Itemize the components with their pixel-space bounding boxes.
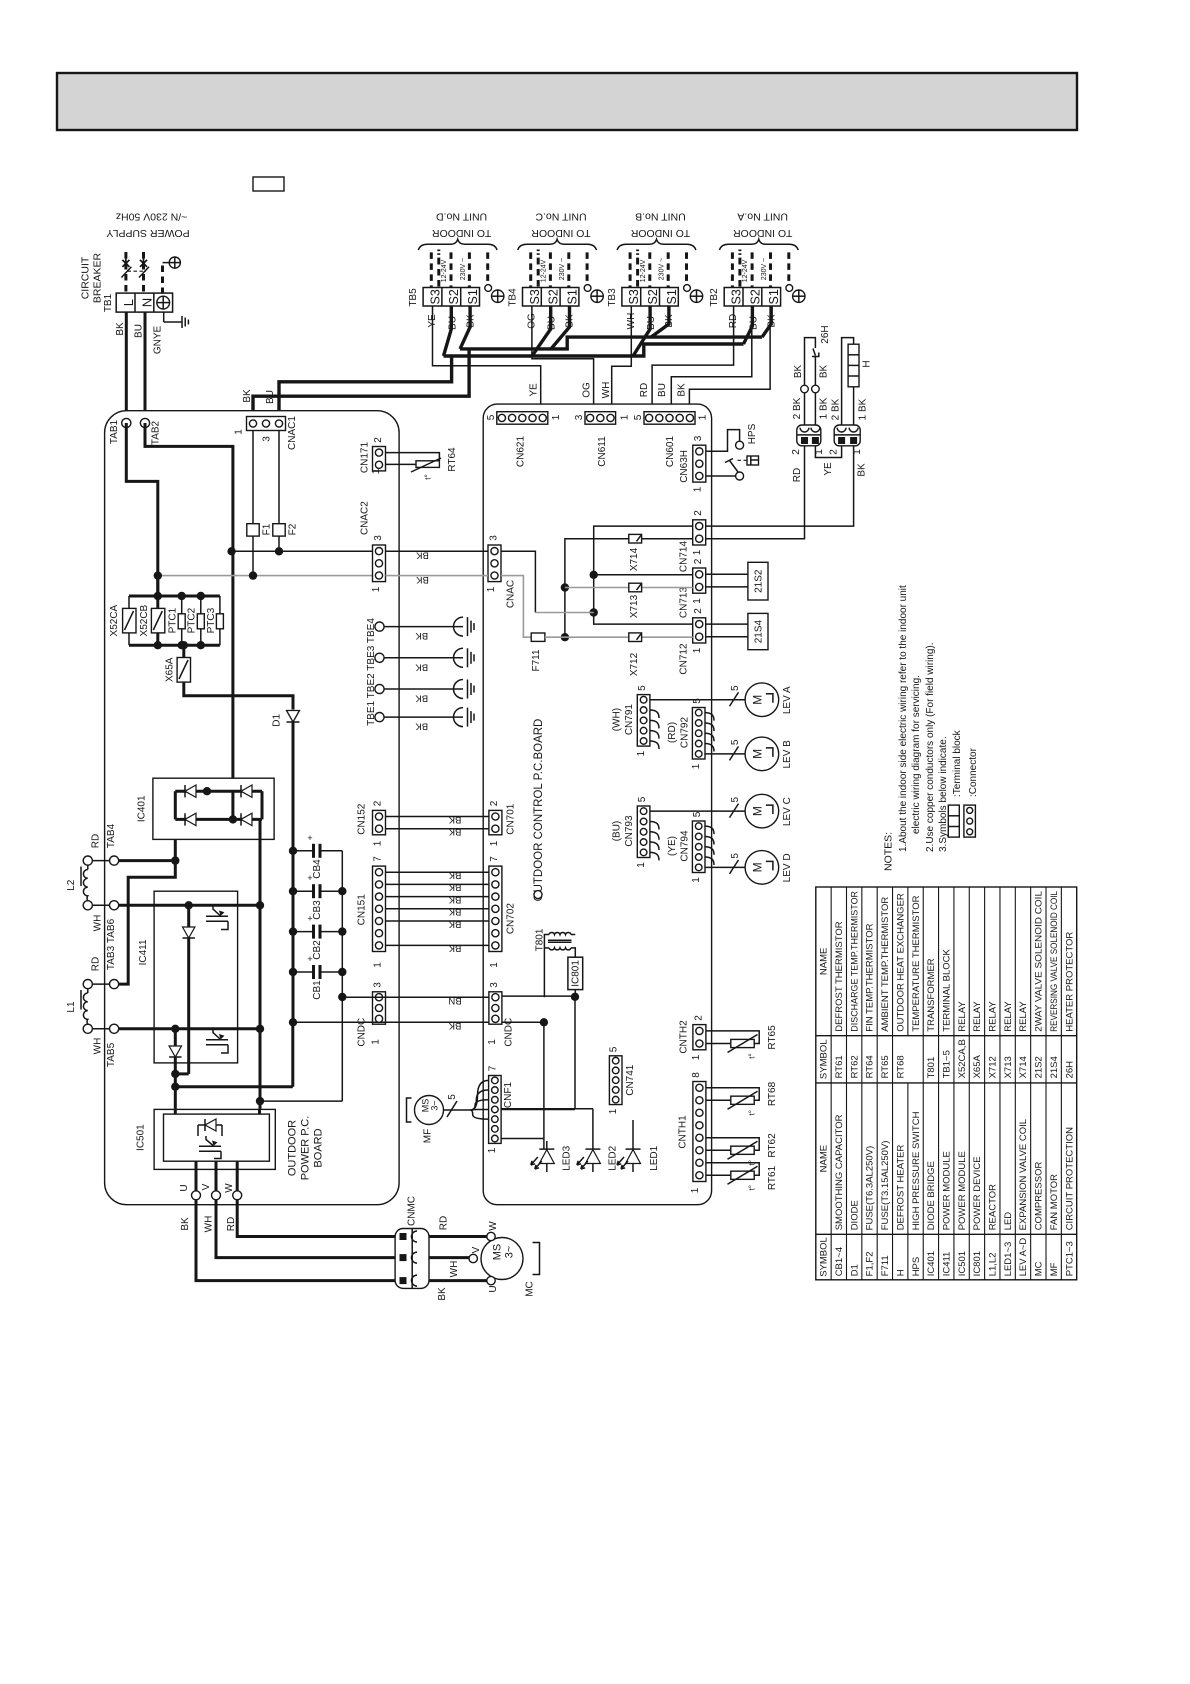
svg-text:RELAY: RELAY [957,1001,968,1032]
HPS switch blade [730,461,739,473]
svg-text:CB3: CB3 [312,900,323,920]
svg-text:X52CA: X52CA [109,604,120,636]
svg-text:RT65: RT65 [767,1025,778,1050]
svg-text:BK: BK [857,463,868,477]
svg-text:BK: BK [416,574,429,585]
svg-text:1: 1 [487,1039,498,1045]
IC401 diode 4 [241,813,252,825]
svg-text:REVERSING VALVE SOLENOID COIL: REVERSING VALVE SOLENOID COIL [1049,891,1060,1032]
svg-text:230V ~: 230V ~ [460,258,467,280]
svg-text:2 BK: 2 BK [830,398,841,420]
svg-text:1: 1 [691,877,702,883]
svg-text:DIODE BRIDGE: DIODE BRIDGE [926,1161,937,1230]
svg-text:TEMPERATURE THERMISTOR: TEMPERATURE THERMISTOR [911,895,922,1031]
svg-text:BREAKER: BREAKER [92,252,104,303]
svg-text:NAME: NAME [819,1145,830,1172]
RT61 loop [706,1163,759,1176]
wires CNMC to MC motor [429,1235,487,1238]
svg-text:RT61: RT61 [834,1055,845,1078]
chassis earth symbol [454,680,464,699]
svg-text:BK: BK [448,882,461,893]
svg-text:WH: WH [92,915,103,932]
svg-text:(WH): (WH) [612,708,623,731]
svg-text:HEATER PROTECTOR: HEATER PROTECTOR [1064,932,1075,1032]
svg-text:1: 1 [371,586,382,592]
svg-text:DISCHARGE TEMP.THERMISTOR: DISCHARGE TEMP.THERMISTOR [849,891,860,1032]
svg-text:RELAY: RELAY [1003,1001,1014,1032]
svg-text:CN611: CN611 [597,436,608,467]
svg-text:POWER MODULE: POWER MODULE [957,1151,968,1230]
svg-text:MS: MS [492,1244,504,1261]
svg-text:RD: RD [639,383,650,397]
svg-text:3: 3 [488,535,499,541]
wire MF to CNF1 with 5-slash [444,1109,472,1111]
field earth terminal TB5 [485,285,492,292]
svg-text:LED2: LED2 [607,1145,618,1170]
svg-text:TO INDOOR: TO INDOOR [432,227,492,239]
svg-text:2: 2 [791,449,802,455]
svg-text:CN63H: CN63H [679,450,690,483]
svg-text:TAB3: TAB3 [106,945,117,970]
YE jumper wire [815,446,841,458]
title bar [57,73,1077,130]
svg-text:GNYE: GNYE [153,326,164,355]
svg-text:CIRCUIT: CIRCUIT [80,256,92,299]
svg-text:2: 2 [693,510,704,516]
svg-text:CN741: CN741 [625,1064,636,1096]
field connector for H [834,425,860,446]
svg-text:FIN TEMP.THERMISTOR: FIN TEMP.THERMISTOR [865,923,876,1031]
svg-text:BU: BU [657,383,668,397]
svg-text:W: W [488,1221,499,1231]
wire CNF1 pin1 to LED3 node [501,1138,544,1140]
svg-text:TAB4: TAB4 [106,823,117,848]
breaker contact N [140,258,147,268]
svg-text:TB2: TB2 [709,288,720,307]
svg-text:(RD): (RD) [667,722,678,743]
svg-text:WH: WH [92,1038,103,1055]
svg-text:CNTH2: CNTH2 [679,1020,690,1054]
svg-text:OG: OG [581,382,592,398]
svg-text:MF: MF [422,1129,433,1143]
svg-text:electric wiring diagram for se: electric wiring diagram for servicing. [911,675,922,834]
svg-text:2: 2 [373,437,384,443]
svg-text:UNIT No.A: UNIT No.A [737,210,788,222]
relay X714 [629,534,642,543]
wire X65A to D1 [184,682,293,709]
slash 5 on LEV D wire [730,860,739,874]
svg-text:3: 3 [261,436,272,442]
solenoid coil 21S4 [748,613,768,649]
breaker contact L [122,258,129,268]
capacitor rail left [292,851,295,1023]
svg-text:CN714: CN714 [679,541,690,573]
svg-text:S3: S3 [528,289,542,304]
terminal TAB3 [110,980,119,989]
svg-text:COMPRESSOR: COMPRESSOR [1034,1162,1045,1231]
wire CN791 to LEV A [650,699,745,701]
svg-text:RT64: RT64 [447,447,458,472]
svg-text:2.Use copper conductors only (: 2.Use copper conductors only (For field … [925,642,936,852]
ground symbol [163,312,165,322]
capacitor CB4 [293,850,314,852]
svg-text:RELAY: RELAY [988,1001,999,1032]
svg-text:12-24V: 12-24V [441,259,448,282]
svg-text:CB2: CB2 [312,940,323,960]
wire to CNAC2 pin1 gray [158,575,373,577]
svg-text:5: 5 [692,811,703,817]
svg-text:CNMC: CNMC [406,1196,417,1226]
svg-text:5: 5 [608,1046,619,1052]
svg-text:5: 5 [486,414,497,420]
svg-text:BK: BK [448,870,461,881]
svg-text:RD: RD [91,957,102,971]
svg-text:(YE): (YE) [667,836,678,856]
chassis earth symbol [454,708,464,727]
wire CNAC pin3 branch [501,551,535,612]
svg-text:TAB1: TAB1 [109,419,120,444]
svg-text:21S4: 21S4 [1049,1056,1060,1078]
svg-text:1: 1 [692,549,703,555]
svg-text:CN151: CN151 [356,894,367,926]
svg-text:TAB5: TAB5 [106,1042,117,1067]
svg-text:TO INDOOR: TO INDOOR [531,227,591,239]
fuse F1 [252,431,254,524]
connector CNAC [488,545,501,582]
svg-text:CNTH1: CNTH1 [677,1115,688,1149]
svg-text:CNF1: CNF1 [503,1082,514,1109]
svg-text:21S2: 21S2 [753,569,764,593]
wire CNAC pin1 to F711 gray [501,576,531,638]
svg-text:1 BK: 1 BK [858,398,869,420]
expansion valve motor LEV B [745,737,779,771]
thermistor RT61 [731,1171,754,1179]
svg-text:1: 1 [692,598,703,604]
wire BK CNAC2-CNAC [386,550,489,552]
wire TAB2 feed [145,423,233,791]
svg-text:U: U [488,1285,499,1292]
lower IGBT rail [119,1027,260,1030]
svg-text:BK: BK [180,1217,191,1231]
svg-text:CN791: CN791 [624,704,635,736]
wire gray CNAC2-CNAC [386,575,489,577]
wire to CN713 pin2 [594,574,693,576]
svg-text:BK: BK [415,721,428,732]
svg-text:LEV C: LEV C [782,797,793,826]
svg-text:X65A: X65A [972,1054,983,1078]
fuse F2 [278,431,280,524]
svg-text:12-24V: 12-24V [640,259,647,282]
svg-text:7: 7 [487,1065,498,1071]
svg-text:TBE1 TBE2 TBE3 TBE4: TBE1 TBE2 TBE3 TBE4 [366,618,377,726]
connector CNAC1 [247,417,286,431]
svg-text:5: 5 [692,698,703,704]
svg-text:X712: X712 [988,1056,999,1078]
connector CN792 [692,708,705,760]
expansion valve motor LEV D [745,851,779,885]
svg-text:1: 1 [486,586,497,592]
svg-text:S3: S3 [627,289,641,304]
thermistor RT62 [731,1146,754,1154]
wire CN714-CN712 link [594,526,693,624]
LED2 riser [592,1109,594,1141]
svg-text:UNIT No.B: UNIT No.B [635,210,686,222]
terminal TBE [375,653,384,662]
svg-text:RT62: RT62 [849,1055,860,1078]
wire N to TAB2 [144,312,147,423]
wire to CNAC2 pin3 [232,550,373,552]
svg-text:1: 1 [690,1187,701,1193]
svg-text:TERMINAL BLOCK: TERMINAL BLOCK [942,949,953,1032]
svg-text:(BU): (BU) [612,821,623,842]
svg-text:X65A: X65A [164,657,175,682]
free-wheel diode upper [187,905,190,927]
capacitor CB1 [293,971,314,973]
wires CN714 to field connectors [705,446,853,526]
svg-text:21S4: 21S4 [753,619,764,643]
svg-text:BK: BK [448,814,461,825]
field earth terminal TB2 [786,285,793,292]
svg-text:2 BK: 2 BK [792,397,803,419]
wire CN793 to LEV C [650,810,745,812]
svg-text:TB1: TB1 [103,293,114,312]
svg-text:2: 2 [372,800,383,806]
svg-text:WH: WH [449,1261,460,1278]
svg-text:230V ~: 230V ~ [761,258,768,280]
svg-text:MF: MF [1049,1262,1060,1276]
svg-text:t°: t° [748,1185,757,1190]
svg-text:CN793: CN793 [624,815,635,847]
svg-text:POWER MODULE: POWER MODULE [942,1151,953,1230]
svg-text:CN601: CN601 [665,436,676,468]
relay X712 [629,633,642,642]
svg-text:TAB2: TAB2 [150,420,161,445]
svg-text:12-24V: 12-24V [541,259,548,282]
RT68 loop [706,1088,759,1101]
hooks CN794 [705,826,714,834]
svg-text:1: 1 [489,840,500,846]
svg-text:UNIT No.C: UNIT No.C [535,210,587,222]
svg-text:S1: S1 [767,289,781,304]
svg-text:LED1: LED1 [649,1145,660,1170]
IC401 lower rail [175,818,262,821]
thermistor RT68 [731,1096,754,1104]
T801 leads [544,935,549,998]
field wiring dashed lines TB2 [731,252,734,287]
svg-text:2WAY VALVE SOLENOID COIL: 2WAY VALVE SOLENOID COIL [1034,891,1045,1032]
DC negative bus [175,1085,292,1088]
svg-text:POWER P.C.: POWER P.C. [299,1116,311,1181]
wire TAB1 feed [126,423,158,596]
svg-text:L1,L2: L1,L2 [988,1253,999,1277]
svg-text:~/N 230V 50Hz: ~/N 230V 50Hz [116,210,188,222]
svg-text:5: 5 [637,685,648,691]
svg-text:EXPANSION VALVE COIL: EXPANSION VALVE COIL [1018,1119,1029,1230]
wire WH TB3-S3 to CN611 [612,306,632,412]
svg-text:5: 5 [637,796,648,802]
svg-text:1.About the indoor side electr: 1.About the indoor side electric wiring … [898,585,909,852]
svg-text:CN792: CN792 [680,717,691,749]
relay X713 [629,583,642,592]
svg-text:3: 3 [372,982,383,988]
svg-text:3: 3 [489,982,500,988]
bus wire BK S1 [253,349,469,417]
wire X714 branch [565,539,693,638]
svg-text:F711: F711 [880,1255,891,1276]
svg-text:+: + [307,873,312,883]
wire CNDC to IC801 node [502,995,575,997]
svg-text:L2: L2 [66,879,77,891]
svg-text:LEV B: LEV B [782,740,793,769]
svg-text:U: U [179,1184,190,1191]
svg-text:BK: BK [448,918,461,929]
svg-text:FUSE(T6.3AL250V): FUSE(T6.3AL250V) [865,1146,876,1230]
IC401 diode 2 [241,785,252,797]
svg-text:TB3: TB3 [607,288,618,307]
svg-text:BK: BK [415,661,428,672]
svg-text:FAN MOTOR: FAN MOTOR [1049,1174,1060,1230]
IC501 input legs [174,1109,177,1114]
svg-text:CN701: CN701 [505,803,516,835]
svg-text:t°: t° [424,474,433,479]
svg-text:BK: BK [448,826,461,837]
wire U to CNMC [196,1200,395,1281]
svg-text:5: 5 [633,414,644,420]
bus diagonals S1 [460,306,470,349]
svg-text:BN: BN [448,995,461,1006]
brace over TB3 [617,239,696,250]
svg-text:BK: BK [115,322,126,336]
svg-text:CN713: CN713 [679,587,690,619]
svg-text:IC501: IC501 [135,1124,146,1151]
slash 5 on LEV B wire [730,746,739,760]
svg-text:L1: L1 [66,1001,77,1013]
wire BN between CNDC [342,996,489,998]
bus diagonals S2 [444,306,452,356]
fan-out curves into CNF1 [471,1080,489,1110]
svg-text:2: 2 [693,558,704,564]
free-wheel diode lower [174,1029,177,1046]
power device IC801 [568,957,583,989]
DC positive rail [261,791,264,819]
svg-text:V: V [201,1183,212,1190]
svg-text:CN702: CN702 [505,903,516,935]
wire CNDC pin1 node [502,1021,544,1023]
svg-text:2: 2 [693,608,704,614]
svg-text:SMOOTHING CAPACITOR: SMOOTHING CAPACITOR [834,1114,845,1230]
svg-text:1: 1 [372,840,383,846]
svg-text:CN794: CN794 [680,830,691,862]
brace over TB5 [418,239,497,250]
svg-text:5: 5 [447,1094,458,1100]
RT62 loop [706,1138,759,1151]
wire CNF1 pin4 to IC801 node [501,1108,575,1110]
expansion valve motor LEV C [745,794,779,828]
svg-text:DEFROST THERMISTOR: DEFROST THERMISTOR [834,921,845,1031]
svg-text:M: M [751,695,765,705]
svg-text:BK: BK [416,549,429,560]
svg-text:OUTDOOR CONTROL P.C.BOARD: OUTDOOR CONTROL P.C.BOARD [533,719,545,902]
IC401 left leg [174,791,177,819]
hooks CN793 [650,821,659,829]
svg-text:F1,F2: F1,F2 [865,1251,876,1276]
svg-text:3: 3 [574,414,585,420]
svg-text:CN712: CN712 [679,643,690,675]
svg-text:S2: S2 [447,289,461,304]
earth symbol near TB5 [492,290,504,302]
svg-text:BK: BK [793,365,804,379]
svg-text:1: 1 [692,486,703,492]
hooks CN792 [705,713,714,721]
svg-text:X714: X714 [1018,1056,1029,1078]
svg-text::Connector: :Connector [968,747,979,797]
svg-text:LED1~3: LED1~3 [1003,1242,1014,1277]
wire BK TB2-S1 to CN601 [689,306,770,412]
svg-text:+: + [307,954,312,964]
svg-text:V: V [471,1246,482,1253]
wire BK between CNDC [293,1021,489,1023]
wire CN794 to LEV D [705,866,745,868]
svg-text:T801: T801 [926,1057,937,1079]
svg-text:H: H [861,360,872,367]
svg-text:2: 2 [693,1015,704,1021]
wires CN151 to CN702 [386,871,489,873]
earth symbol near TB4 [591,290,603,302]
relay contacts X52CA X52CB and PTC frame [129,595,220,598]
svg-text:230V ~: 230V ~ [559,258,566,280]
field wiring dashed lines TB5 [430,252,433,287]
capacitor rail right [341,851,343,1101]
svg-text:S1: S1 [565,289,579,304]
svg-text:AMBIENT TEMP.THERMISTOR: AMBIENT TEMP.THERMISTOR [880,897,891,1032]
svg-text:S2: S2 [646,289,660,304]
svg-text:TB4: TB4 [507,288,518,307]
svg-text:1: 1 [692,647,703,653]
svg-text:T801: T801 [534,928,545,951]
legend box [253,177,284,191]
outdoor control pc board outline [483,404,711,1205]
test point near T801 [534,891,542,899]
svg-text:F2: F2 [287,523,298,535]
svg-text:21S2: 21S2 [1034,1056,1045,1078]
svg-text:5: 5 [730,739,741,745]
IC501 IGBT symbol [199,1136,221,1159]
svg-text:CN152: CN152 [356,803,367,835]
svg-text:1: 1 [697,414,708,420]
svg-text:X713: X713 [629,594,640,618]
svg-text:WH: WH [601,382,612,399]
slash 5 on LEV A wire [730,692,739,706]
field earth terminal TB4 [584,285,591,292]
svg-text:TB5: TB5 [408,288,419,307]
terminal TAB2 [140,418,149,427]
svg-text:3: 3 [373,535,384,541]
svg-text:WH: WH [204,1216,215,1233]
svg-text:D1: D1 [849,1264,860,1276]
compressor motor MC [481,1238,523,1280]
svg-text:230V ~: 230V ~ [659,258,666,280]
svg-text:CB4: CB4 [312,859,323,879]
bottom junctions [175,1072,188,1075]
svg-text:1: 1 [551,414,562,420]
wire YE TB5-S3 to CN621 [433,306,541,412]
svg-text:IC801: IC801 [571,960,582,987]
svg-text:S2: S2 [547,289,561,304]
svg-text:26H: 26H [1064,1061,1075,1079]
svg-text:CB1~4: CB1~4 [834,1247,845,1276]
link to capacitor rail [260,1100,342,1102]
thermistor RT65 [731,1039,754,1047]
